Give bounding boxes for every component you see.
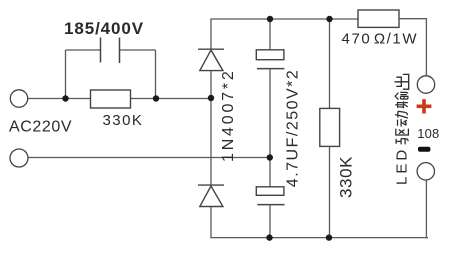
capacitor C2 electrolytic top <box>256 50 284 69</box>
wire C3 bottom lead <box>269 205 271 238</box>
label CJK glyph chu (output2) <box>395 74 409 89</box>
wire C3 top lead <box>269 158 271 187</box>
node junction on live line right <box>153 95 159 101</box>
wire capacitor C1 left lead <box>66 49 101 51</box>
wire C2 top lead <box>269 19 271 50</box>
svg-text:LED: LED <box>394 147 411 185</box>
resistor R2 330K vertical <box>320 108 340 146</box>
wire parallel branch left riser <box>65 50 67 99</box>
diode D1 1N4007 top <box>198 49 224 70</box>
wire diode branch vertical <box>210 19 212 49</box>
terminal AC live <box>10 90 27 107</box>
wire diode branch middle <box>210 71 212 186</box>
node top rail cap <box>267 16 273 22</box>
wire R2 bottom lead <box>329 146 331 237</box>
svg-text:AC220V: AC220V <box>9 119 72 136</box>
wire neutral line from AC terminal to cap midpoint <box>28 157 270 159</box>
wire parallel branch right riser <box>155 50 157 99</box>
plus sign marker <box>417 99 432 113</box>
svg-text:470Ω/1W: 470Ω/1W <box>342 31 419 48</box>
node bottom rail resistor <box>326 234 332 240</box>
capacitor C3 electrolytic bottom <box>256 187 284 205</box>
wire R3 to plus terminal <box>399 19 426 76</box>
svg-text:1N4007*2: 1N4007*2 <box>220 68 237 162</box>
wire capacitor C1 right lead <box>120 49 156 51</box>
node A junction diode branch <box>208 95 214 101</box>
wire C2 bottom lead <box>269 69 271 158</box>
minus sign marker <box>418 147 430 152</box>
svg-text:4.7UF/250V*2: 4.7UF/250V*2 <box>285 69 302 188</box>
node bottom rail cap <box>266 234 272 240</box>
svg-text:330K: 330K <box>337 156 356 198</box>
node top rail resistor <box>326 16 332 22</box>
wire live line from AC terminal to node A <box>28 98 211 100</box>
wire minus terminal to bottom rail <box>426 180 428 238</box>
diode D2 1N4007 bottom <box>198 185 224 206</box>
label CJK glyph shu (output1) <box>395 92 408 108</box>
terminal output minus <box>417 163 434 180</box>
terminal output plus <box>417 76 434 93</box>
wire bottom rail <box>210 237 428 239</box>
node cap midpoint <box>267 154 273 160</box>
label CJK glyph qu (drive1) <box>396 129 409 145</box>
svg-text:185/400V: 185/400V <box>64 19 144 38</box>
resistor R1 330K horizontal <box>91 90 131 108</box>
node junction on live line left <box>62 95 68 101</box>
svg-text:108: 108 <box>417 126 439 141</box>
capacitor C1 plates 185/400V <box>101 38 120 64</box>
wire R2 top lead <box>329 19 331 108</box>
terminal AC neutral <box>10 149 28 167</box>
svg-text:330K: 330K <box>103 112 144 129</box>
wire top rail <box>210 18 358 20</box>
label CJK glyph dong (drive2) <box>395 111 408 126</box>
resistor R3 470ohm/1W <box>358 10 399 27</box>
wire diode branch bottom <box>210 207 212 238</box>
